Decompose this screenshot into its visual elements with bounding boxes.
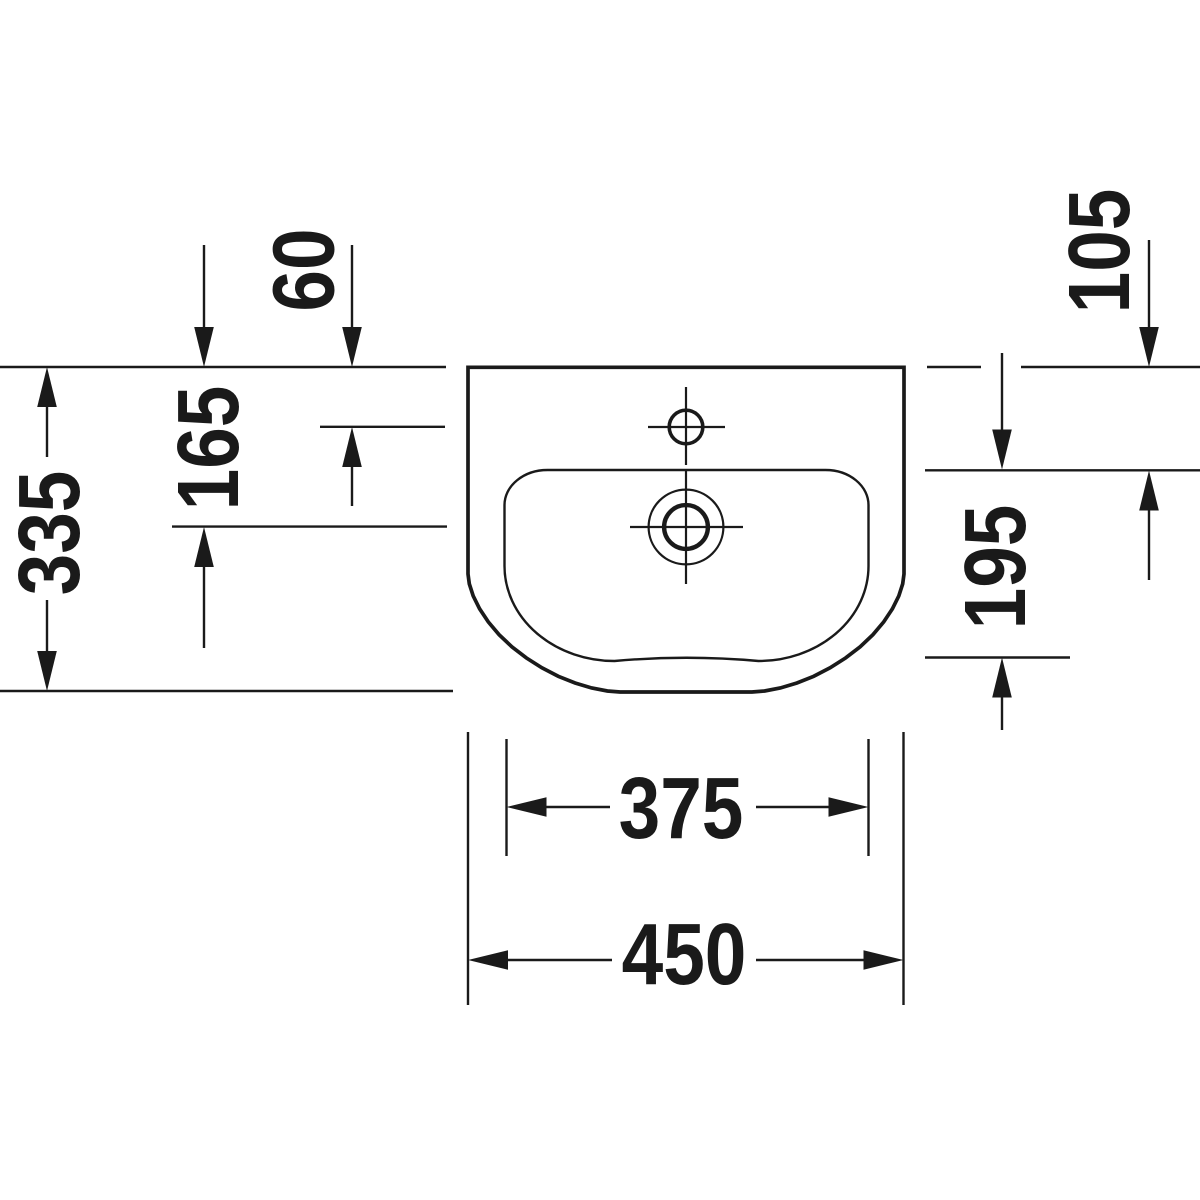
dim 195 arrowhead down [992,430,1012,470]
dim 105 up-arrow tail [1148,507,1150,580]
dim 335 line lower tail [46,600,48,653]
dim 375 line right tail [756,806,832,808]
dim 165 arrowhead up [194,527,214,567]
svg-text:165: 165 [161,386,258,511]
basin outer outline [468,367,904,692]
dim 335 arrowhead down [37,651,57,691]
extension line vertical right outer [902,732,904,1005]
dim 60 up-arrow tail [351,464,353,506]
dim 335 arrowhead up [37,367,57,407]
dim 195 up-arrow tail [1001,694,1003,730]
extension line top-right segment a [927,366,981,368]
faucet hole circle [669,410,703,444]
dim 165 up-arrow tail [203,564,205,648]
extension line drain centerline left [172,525,447,527]
svg-text:375: 375 [619,761,744,858]
extension line rim-top right [925,469,1200,471]
dim 105 arrowhead up [1139,471,1159,511]
drain outer circle [649,490,724,565]
extension line vertical left inner [505,739,507,856]
dim 450 arrowhead right [864,950,904,970]
dim 450 arrowhead left [468,950,508,970]
drain crosshair vertical [685,469,687,584]
extension line vertical left outer [467,732,469,1005]
dim 60 down-arrow tail [351,245,353,330]
dim 60 arrowhead up [342,427,362,467]
extension line faucet centerline left [320,426,445,428]
svg-text:60: 60 [256,228,353,311]
dim 335 line upper tail [46,405,48,457]
dim 165 down-arrow tail [203,245,205,330]
dim 375 line left tail [543,806,610,808]
svg-text:195: 195 [948,505,1045,630]
drain crosshair horizontal [630,526,743,528]
dim 195 arrowhead up [992,658,1012,698]
extension line top-left (rear edge) [0,366,446,368]
dim 450 line right tail [756,959,867,961]
extension line bottom-left (front edge) [0,690,453,692]
dim 60 arrowhead down [342,327,362,367]
dim 375 arrowhead right [829,797,869,817]
dim 375 arrowhead left [507,797,547,817]
svg-text:105: 105 [1052,189,1149,314]
svg-text:450: 450 [622,907,747,1004]
svg-text:335: 335 [2,471,99,596]
extension line vertical right inner [867,739,869,856]
dim 450 line left tail [505,959,612,961]
faucet crosshair horizontal [648,426,725,428]
dim 105 down-arrow tail [1148,240,1150,330]
faucet crosshair vertical [685,387,687,465]
drain inner circle [664,505,708,549]
dim 165 arrowhead down [194,327,214,367]
dim 195 down-arrow tail [1001,353,1003,432]
dim 105 arrowhead down [1139,327,1159,367]
basin inner rim [505,470,869,661]
extension line rim-bottom right [925,656,1070,658]
extension line top-right segment b [1021,366,1200,368]
